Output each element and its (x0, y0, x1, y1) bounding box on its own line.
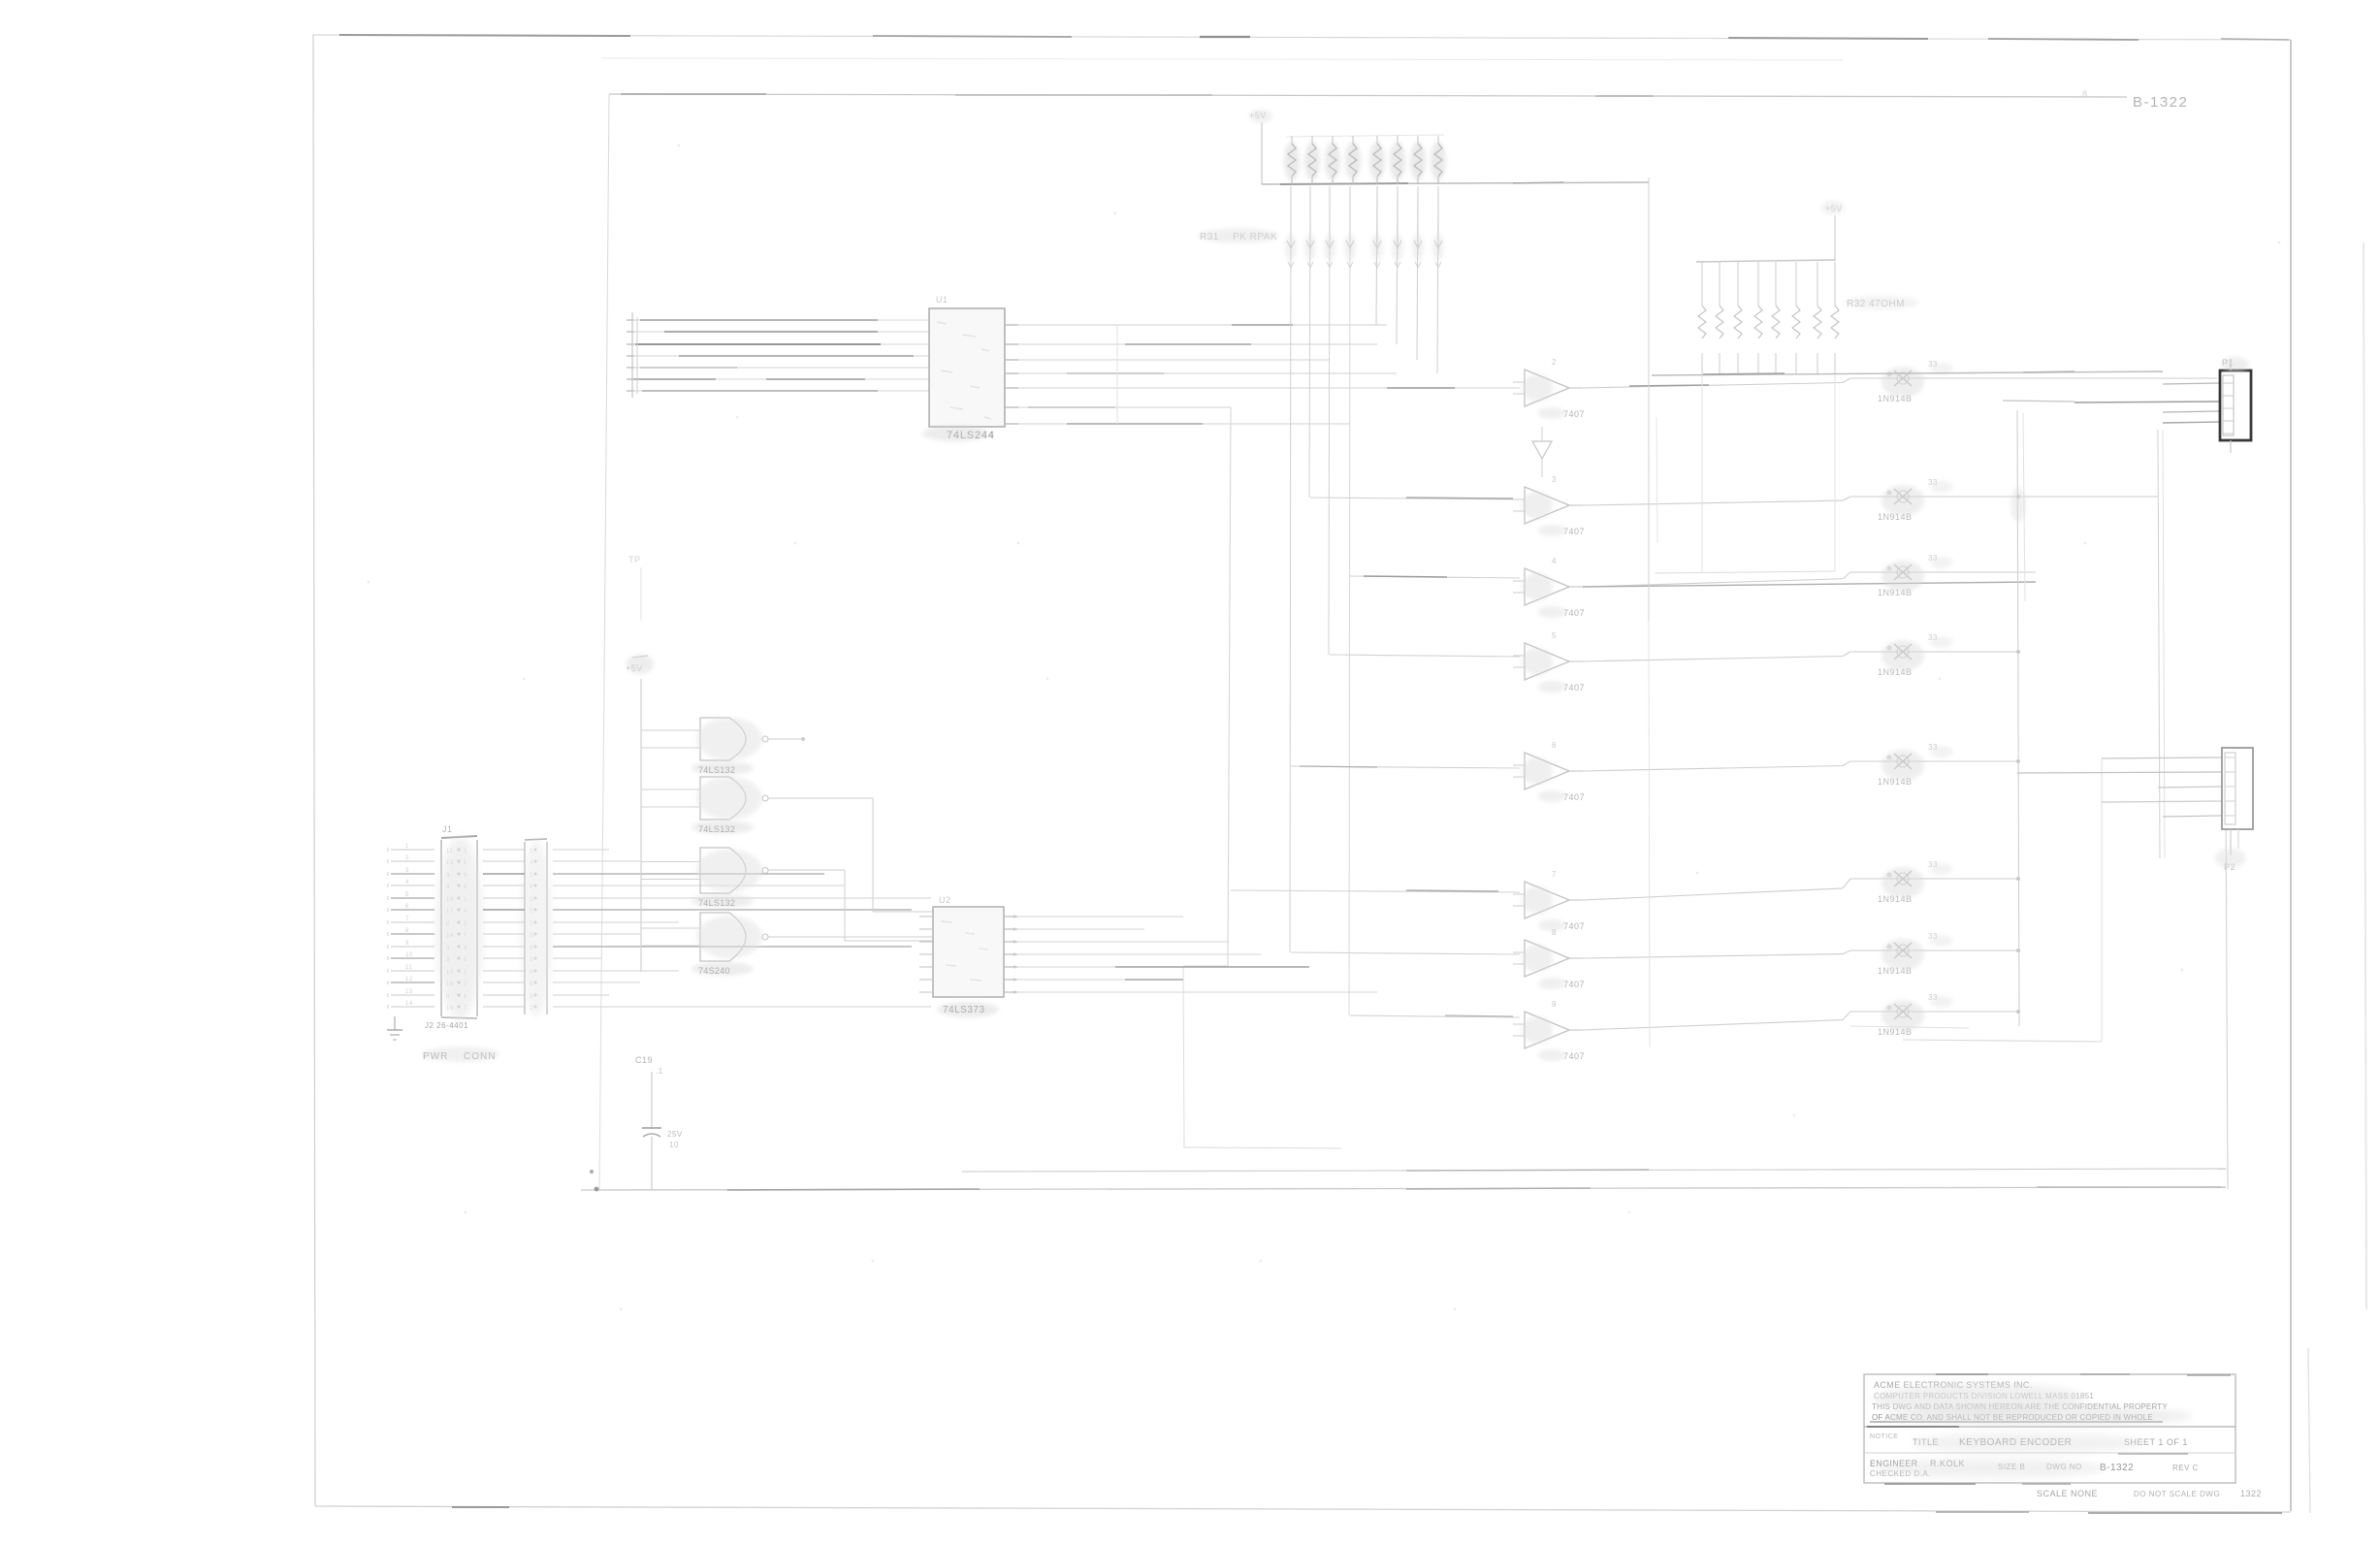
wire U2 output Q2 (1004, 941, 1229, 944)
gate U4B NAND (641, 777, 768, 834)
wire net N6 (1183, 1147, 1341, 1148)
wire gate input G7 (1291, 952, 1520, 954)
svg-text:7407: 7407 (1563, 1051, 1585, 1061)
wire U2 input D5 (919, 979, 933, 981)
wire U2 output Q5 (1004, 979, 1183, 982)
wire gate output G8 (1583, 1012, 2017, 1030)
svg-text:10: 10 (669, 1141, 679, 1149)
wire J1 pin 10 net (483, 957, 601, 959)
value label RP1 (1200, 232, 1277, 242)
resistor RP1 element 2 (1304, 136, 1320, 184)
wire P2 pin 2 (2017, 772, 2222, 773)
resistor R7 (1878, 932, 1953, 976)
wire +5V feed vertical (1649, 177, 1657, 1047)
wire J1 pin 11 stub (388, 965, 434, 973)
connector P2 (2222, 748, 2253, 872)
wire P1 pin 4 (2163, 422, 2220, 423)
wire bus KB3 right segment (1005, 372, 1397, 374)
svg-text:8: 8 (1552, 928, 1557, 937)
wire gate input G5 (1291, 766, 1520, 768)
wire U4C output (768, 870, 933, 941)
svg-text:7407: 7407 (1563, 409, 1585, 419)
svg-text:4: 4 (1552, 557, 1557, 565)
wire U2 input D1 (919, 928, 933, 930)
wire P1 pin 2 (2003, 401, 2220, 402)
wire RP1 pin 6 vertical (1392, 186, 1403, 344)
power +5V RP1 (1249, 111, 1267, 184)
svg-text:2: 2 (1552, 358, 1557, 367)
wire gate output G4 (1583, 652, 2017, 661)
wire bus KB5 right segment (1005, 406, 1231, 408)
svg-text:7407: 7407 (1563, 792, 1585, 802)
wire U2 output Q1 (1004, 928, 1144, 931)
wire J1 pin 2 net (483, 860, 640, 862)
svg-text:11: 11 (405, 965, 412, 971)
resistor R8 (1878, 993, 1953, 1037)
wire bus KB4 right segment (1005, 387, 1520, 389)
svg-text:9: 9 (405, 941, 409, 947)
gate U3F buffer (1513, 870, 1585, 931)
gate U4C NAND (641, 848, 768, 908)
gate U3A buffer (1513, 358, 1585, 419)
wire RP1 pin 2 vertical (1304, 186, 1316, 498)
wire U2 input D0 (919, 916, 933, 917)
svg-text:3: 3 (405, 868, 409, 874)
node B-1322 drawing number (2133, 94, 2188, 111)
wire U4A output (768, 737, 805, 741)
wire U2 output Q3 (1004, 953, 1261, 956)
gate U3X inverter (1532, 427, 1552, 477)
gate U3C buffer (1513, 557, 1585, 618)
wire U2 output Q0 (1004, 916, 1183, 918)
svg-text:7: 7 (405, 917, 409, 922)
resistor RP1 element 4 (1345, 136, 1361, 184)
svg-text:6: 6 (405, 904, 409, 910)
svg-text:6: 6 (1552, 741, 1557, 750)
wire P1 pin 1 (2163, 383, 2220, 384)
resistor RP1 element 5 (1369, 136, 1385, 184)
svg-text:1: 1 (405, 844, 409, 850)
junction J-GND (590, 1170, 598, 1191)
ground (387, 1016, 402, 1040)
wire gate output G2 (1583, 497, 2158, 505)
IC U2 74LS373 (933, 895, 1004, 1015)
wire P1 pin 3 (2163, 411, 2220, 412)
wire RP1 pin 5 vertical (1371, 186, 1383, 325)
svg-text:U2: U2 (939, 895, 951, 905)
gate U3H buffer (1513, 1000, 1585, 1061)
wire J1 pin 4 stub (388, 880, 434, 887)
wire gate input G6 (1231, 890, 1520, 892)
resistor R1 (1878, 360, 1953, 403)
wire bottom rail GND2 (581, 1187, 2226, 1190)
svg-text:B-1322: B-1322 (2100, 1463, 2134, 1473)
wire J1 pin 11 net (483, 970, 679, 972)
wire bottom rail GND1 (962, 1169, 2226, 1172)
resistor RP1 element 7 (1410, 136, 1426, 184)
wire RP1 pin 7 vertical (1412, 186, 1424, 360)
wire bus KB6 right segment (1005, 423, 1350, 425)
wire J1 pin 12 stub (388, 977, 434, 984)
wire bus KB0 right segment (1005, 324, 1387, 326)
svg-text:B-1322: B-1322 (2133, 94, 2188, 111)
svg-text:U1: U1 (936, 295, 949, 305)
node bus terminal strip (632, 312, 637, 398)
svg-text:TP: TP (628, 555, 641, 564)
wire U4B output (768, 798, 933, 912)
wire U2 input D2 (919, 941, 933, 943)
gate U3B buffer (1513, 475, 1585, 536)
connector J1 (436, 824, 483, 1020)
wire J1 pin 12 net (483, 982, 640, 983)
wire bus right vertical V2 (2158, 430, 2165, 858)
wire J1 pin 2 stub (388, 855, 434, 863)
svg-text:12: 12 (405, 977, 413, 982)
resistor R6 (1878, 860, 1953, 904)
resistor RP1 element 8 (1431, 136, 1446, 184)
gate U3G buffer (1513, 928, 1585, 989)
wire RP1 pin 8 vertical (1432, 186, 1444, 373)
resistor RP1 element 3 (1325, 136, 1340, 184)
wire U2 output Q6 (1004, 991, 1377, 994)
wire bus KB2 right segment (1005, 359, 1330, 361)
svg-text:4: 4 (405, 880, 409, 885)
resistor RP1 element 1 (1284, 136, 1300, 184)
resistor R5 (1878, 743, 1953, 787)
wire P2 pin 5 (2163, 816, 2222, 817)
svg-text:2: 2 (405, 855, 409, 861)
wire J1 pin 13 stub (388, 989, 434, 997)
resistor pack RP2 common rail (1696, 260, 1835, 262)
wire bus KB2 left segment (627, 343, 929, 345)
wire U2 input D6 (919, 991, 933, 993)
svg-text:DO NOT SCALE DWG: DO NOT SCALE DWG (2134, 1490, 2220, 1498)
wire J1 pin 4 net (483, 885, 844, 886)
title block (1864, 1374, 2262, 1498)
wire bus KB5 left segment (627, 378, 929, 380)
svg-text:10: 10 (405, 952, 413, 958)
resistor RP2 element 3 (1734, 262, 1742, 374)
wire bus KB1 left segment (627, 331, 929, 333)
wire J1 pin 13 net (483, 994, 609, 996)
wire J1 pin 14 stub (388, 1001, 434, 1009)
resistor RP2 element 2 (1716, 262, 1723, 374)
wire U2 output Q4 (1004, 966, 1309, 969)
label PWR CONN (422, 1021, 499, 1062)
wire net N1 vertical (1183, 407, 1231, 966)
resistor RP2 element 7 (1814, 262, 1821, 374)
svg-text:.1: .1 (656, 1067, 663, 1076)
wire RP1 pin 4 vertical (1344, 186, 1356, 1015)
resistor R3 (1878, 554, 1953, 597)
value label RP2 (1847, 299, 1905, 309)
wire gate output G5 (1583, 761, 2017, 771)
svg-text:C19: C19 (635, 1055, 653, 1065)
wire J1 pin 6 stub (388, 904, 434, 912)
svg-text:J1: J1 (442, 824, 453, 834)
svg-text:7407: 7407 (1563, 608, 1585, 618)
wire gate output G1 (1583, 378, 2217, 388)
wire bus KB0 left segment (627, 319, 929, 321)
wire bus KB6 left segment (627, 390, 929, 392)
resistor RP1 element 6 (1390, 136, 1405, 184)
wire P2 pin 3 (2158, 787, 2222, 788)
wire RP2 lower rail (1655, 374, 1835, 573)
resistor RP2 element 8 (1831, 262, 1839, 374)
wire J1 pin 14 net (483, 1006, 931, 1008)
svg-text:8: 8 (405, 928, 409, 934)
wire net N4 vertical (2101, 758, 2103, 1042)
wire gate input G4 (1330, 655, 1520, 657)
wire gate output G3 (1583, 572, 2036, 587)
resistor pack RP1 common rail (1262, 135, 1649, 184)
IC U1 74LS244 (929, 295, 1005, 441)
gate U4D NAND (641, 913, 768, 976)
resistor RP2 element 4 (1754, 262, 1762, 374)
wire J1 pin 8 stub (388, 928, 434, 936)
wire gate output G7 (1583, 950, 2017, 958)
wire U2 input D4 (919, 966, 933, 968)
wire RP1 pin 3 vertical (1324, 186, 1335, 655)
svg-text:7407: 7407 (1563, 980, 1585, 989)
wire gate input G3 (1350, 576, 1520, 578)
svg-text:5: 5 (1552, 631, 1557, 640)
gate U4A NAND (641, 718, 768, 775)
svg-text:5: 5 (405, 892, 409, 898)
wire gate input G8 (1350, 1015, 1520, 1017)
capacitor C19 (635, 1055, 683, 1189)
wire J1 pin 1 net (483, 849, 609, 851)
wire J1 pin 7 net (483, 921, 679, 923)
svg-text:J2 26-4401: J2 26-4401 (425, 1021, 468, 1030)
wire bus right vertical V3 (2226, 795, 2228, 1189)
resistor RP2 element 5 (1772, 262, 1780, 374)
wire gate output G6 (1583, 879, 2017, 900)
wire P2 pin 1 (2102, 757, 2222, 758)
wire net N3 horizontal (1652, 371, 2163, 375)
wire J1 pin 3 stub (388, 868, 434, 876)
wire gate input G2 (1310, 498, 1520, 499)
gate U3D buffer (1513, 631, 1585, 692)
wire J1 pin 8 net (483, 933, 640, 935)
label sheet note (2082, 89, 2088, 99)
resistor RP2 element 6 (1792, 262, 1800, 374)
svg-text:7: 7 (1552, 870, 1557, 879)
wire J1 pin 5 stub (388, 892, 434, 900)
svg-text:14: 14 (405, 1001, 413, 1007)
wire J1 pin 3 net (483, 873, 824, 875)
svg-text:13: 13 (405, 989, 413, 995)
power +5V U4 (626, 656, 648, 972)
svg-text:REV C: REV C (2172, 1464, 2199, 1472)
power +5V RP2 (1825, 204, 1843, 261)
wire J1 pin 9 stub (388, 941, 434, 949)
gate U3E buffer (1513, 741, 1585, 802)
wire U4D output (768, 936, 933, 938)
node TP1 (628, 555, 641, 621)
wire bus KB4 left segment (627, 367, 929, 369)
wire J1 pin 9 net (483, 946, 912, 948)
wire U2 input D3 (919, 953, 933, 955)
resistor RP2 element 1 (1698, 262, 1706, 374)
wire J1 pin 6 net (483, 909, 912, 911)
wire net N2 vertical (1183, 966, 1184, 1147)
svg-text:7407: 7407 (1563, 921, 1585, 931)
connector J2 (521, 839, 552, 1017)
wire net N5 (1850, 1026, 2102, 1042)
svg-text:NOTICE: NOTICE (1870, 1433, 1898, 1440)
wire bus right vertical V1 (2010, 410, 2026, 1026)
connector P1 (2220, 358, 2251, 453)
svg-text:9: 9 (1552, 1000, 1557, 1009)
wire J1 pin 10 stub (388, 952, 434, 960)
wire bus KB3 left segment (627, 355, 929, 357)
wire bus KB1 right segment (1005, 343, 1377, 345)
svg-text:7407: 7407 (1563, 683, 1585, 692)
resistor R2 (1878, 478, 1953, 522)
svg-text:8: 8 (2082, 89, 2088, 99)
wire RP1 pin 1 vertical (1285, 186, 1297, 952)
wire P2 pin 4 (2102, 801, 2222, 802)
svg-text:3: 3 (1552, 475, 1557, 484)
wire J1 pin 5 net (483, 897, 931, 899)
svg-text:SCALE NONE: SCALE NONE (2037, 1489, 2098, 1498)
svg-text:1322: 1322 (2240, 1489, 2262, 1498)
wire J1 pin 1 stub (388, 844, 434, 852)
wire J1 pin 7 stub (388, 917, 434, 924)
svg-text:7407: 7407 (1563, 527, 1585, 536)
svg-text:25V: 25V (667, 1130, 683, 1139)
resistor R4 (1878, 633, 1953, 677)
